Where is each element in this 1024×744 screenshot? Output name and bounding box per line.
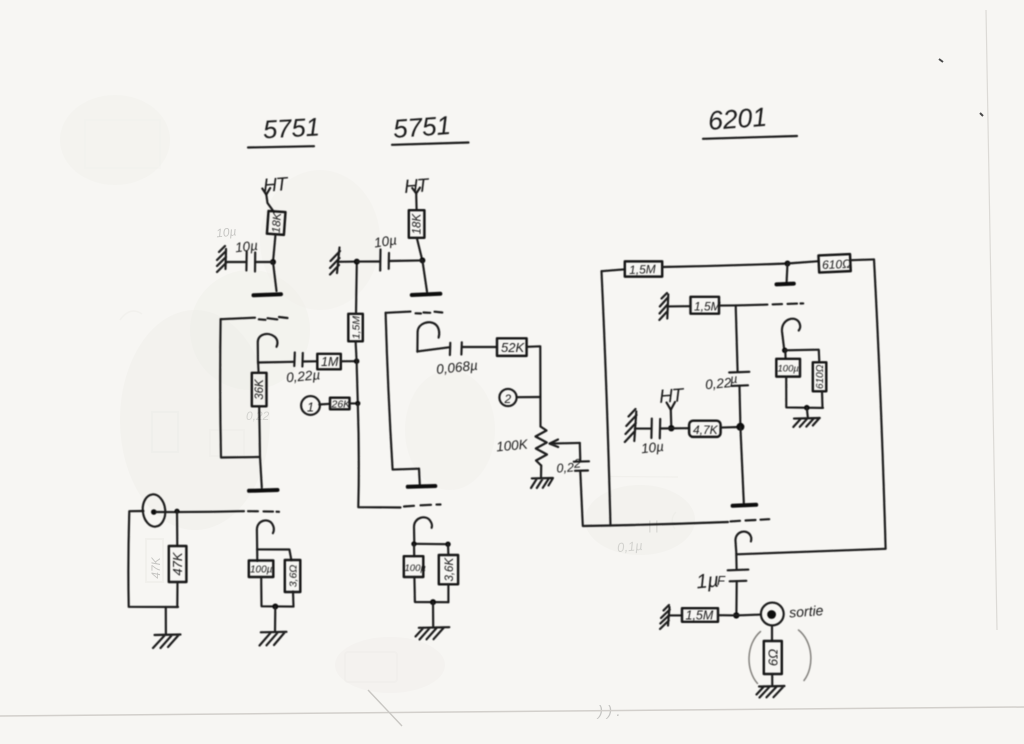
svg-text:) ) .: ) ) .: [596, 703, 621, 720]
wire node down to plate: [273, 262, 277, 291]
wire cathode node to 0,068u: [417, 347, 449, 351]
HT label (first stage): [262, 174, 289, 197]
ground (wall style) at V3a grid: [659, 293, 668, 320]
resistor 1,5M (V3a grid): [691, 297, 721, 314]
triode V2a plate bar: [412, 294, 441, 295]
wire into 100u: [413, 544, 415, 556]
potentiometer wiper arrow: [550, 440, 580, 448]
ground (output): [757, 686, 785, 698]
wire cathode stem down to 1uF: [735, 554, 737, 569]
triode V1a grid wire (solid part from box): [221, 318, 255, 320]
tube label 5751 (first): [262, 113, 320, 144]
capacitor 1uF plates: [728, 570, 749, 582]
resistor 610ohm (V3a cathode, vertical): [813, 362, 827, 391]
capacitor 0,068u plates: [450, 342, 462, 355]
big box right vertical: [874, 259, 886, 548]
wire 1,5M bottom to node: [356, 341, 357, 361]
node: V2 plate / 10u junction: [419, 257, 425, 263]
wire 36K down to box bottom / V1b plate: [259, 406, 262, 487]
capacitor 100u (V3a cathode): [776, 359, 800, 377]
svg-text:F: F: [717, 573, 726, 588]
wire 1M to center node: [341, 360, 357, 362]
ground (wall style) at 10u 6201: [625, 409, 637, 442]
svg-text:18K: 18K: [412, 213, 424, 235]
wire node down to 26K node: [357, 361, 358, 403]
svg-text:100K: 100K: [496, 437, 530, 455]
label 10u (6201): [640, 439, 664, 456]
wire circle2 to pot line: [517, 396, 541, 398]
wire node down to 47K: [176, 511, 178, 546]
cathode node wire to 0.22u: [258, 361, 294, 364]
top rail left segment: [602, 269, 626, 271]
svg-text:10µ: 10µ: [234, 238, 258, 255]
ground (V2b cathode): [416, 627, 450, 639]
wire V2b cathode top rail: [414, 543, 449, 546]
svg-text:HT: HT: [658, 385, 685, 408]
wire circle1 to 26K: [319, 403, 330, 406]
svg-text:4,7K: 4,7K: [693, 423, 719, 437]
resistor 36K (vertical): [252, 373, 267, 407]
big box left vertical: [602, 271, 611, 525]
triode V3b plate bar: [733, 505, 757, 506]
wire 1,5M to output node: [718, 614, 736, 616]
node: 4,7K / 0,22u junction (fat): [736, 423, 744, 431]
resistor 6ohm (vertical): [764, 641, 782, 674]
triode V3a cathode hook: [782, 319, 800, 351]
ground (V1b cathode): [260, 632, 287, 646]
input connector (jack): [141, 493, 167, 528]
HT arrow (first stage): [262, 188, 270, 195]
wire HT to R 18K (second): [415, 193, 418, 210]
wire grid node down to 0,22u: [736, 305, 738, 371]
svg-text:36K: 36K: [254, 378, 266, 400]
ground (V3a cathode): [793, 418, 820, 427]
output jack (sortie): [761, 603, 784, 626]
triode V2a grid wire solid: [386, 312, 411, 313]
svg-text:100µ: 100µ: [250, 565, 273, 576]
wire 1,5M top up to V2 input node: [355, 262, 358, 314]
capacitor 10u (6201): [651, 419, 660, 439]
node: output node: [733, 612, 739, 618]
ground (wall style) at 10u first stage: [217, 246, 226, 272]
ground (potentiometer): [531, 478, 553, 488]
svg-text:5751: 5751: [262, 113, 320, 144]
grid-return box left side (V2a): [386, 313, 419, 470]
wire pot bottom to ground: [540, 466, 542, 478]
wire node to ground: [432, 602, 434, 627]
resistor 610ohm (top rail): [818, 254, 851, 272]
HT arrow (second stage): [412, 188, 420, 194]
wire HT to rail: [670, 410, 673, 428]
wire 1uF down to output node: [735, 582, 737, 616]
terminal circle 1: [301, 396, 320, 415]
wire R18K to node: [417, 238, 423, 260]
wire node to 10u: [357, 260, 380, 262]
wire cathode to 100u and 3,6 top rail: [257, 549, 291, 560]
svg-text:10µ: 10µ: [373, 232, 398, 250]
label 0,068u: [435, 358, 478, 377]
top rail right segment to corner: [850, 258, 874, 261]
V1b cathode hook: [257, 520, 274, 561]
wire 47K to bottom rail: [176, 582, 178, 607]
node: V2b cathode ground node: [430, 599, 436, 605]
V1b grid dashes: [248, 510, 279, 513]
wire ground to node: [338, 261, 357, 263]
wire plate stem (V3a): [786, 264, 789, 283]
wire 0,22u to 1M: [303, 360, 317, 362]
wire 4,7K to junction: [721, 426, 741, 429]
wire cathode to right box line: [736, 549, 885, 555]
V2b grid cathode: hook: [414, 517, 432, 544]
svg-text:52K: 52K: [501, 340, 525, 355]
label 0,22u: [286, 367, 321, 385]
resistor 18K (first stage plate): [267, 211, 286, 235]
V3b grid dashes: [731, 519, 770, 521]
label sortie: [789, 602, 824, 620]
wire V2b plate vertical (from box bottom): [418, 469, 421, 485]
node: V2b cathode right: [445, 542, 450, 547]
triode V3b cathode hook: [735, 532, 751, 555]
node: V2b cathode left: [411, 541, 416, 546]
label 0,22 (pot coupling): [556, 456, 581, 475]
terminal circle 2: [499, 389, 516, 406]
wire node to ground: [807, 408, 808, 418]
wire 610 stems: [819, 350, 823, 408]
wire 1,5M to grid node: [719, 304, 736, 306]
svg-text:2: 2: [572, 456, 581, 471]
node: 26K junction: [355, 401, 360, 406]
svg-text:0,22: 0,22: [705, 375, 733, 392]
wire jack down to 6ohm: [771, 625, 773, 641]
wire 10u to node: [255, 261, 273, 263]
wire arrow to 0,22 cap: [579, 443, 582, 461]
wire 52K to corner, down to pot: [527, 346, 541, 426]
wire ground to 10u (6201): [635, 428, 651, 430]
capacitor 0,22u plates (6201): [729, 372, 749, 386]
wire junction down to V3b plate: [740, 427, 743, 503]
node: V3a cathode: [782, 348, 788, 354]
svg-text:1,5M: 1,5M: [694, 300, 721, 314]
resistor 1,5M (top rail feedback): [625, 261, 662, 277]
wire node to ground: [274, 607, 276, 632]
wire output node to jack: [736, 614, 761, 617]
tube label 5751 (second): [392, 110, 452, 144]
HT arrow (6201): [667, 402, 676, 410]
label 10u: [234, 238, 258, 255]
svg-text:610Ω: 610Ω: [815, 364, 826, 389]
wire 0,22u down to HT junction: [738, 386, 741, 426]
ground (input network): [153, 635, 181, 649]
svg-text:1,5M: 1,5M: [629, 262, 656, 277]
capacitor 0,22u plates: [294, 353, 303, 367]
svg-text:100µ: 100µ: [778, 364, 800, 375]
svg-text:1: 1: [307, 401, 314, 415]
label 100K: [496, 437, 530, 455]
triode V2a cathode hook: [417, 322, 439, 352]
wire 3,6K stems: [447, 544, 450, 602]
wire ground to 10u: [226, 261, 247, 263]
ground (wall style) second stage 10u: [330, 248, 340, 275]
svg-text:µ: µ: [729, 372, 737, 387]
wire 26K to center line node: [350, 402, 358, 404]
HT label (second stage): [403, 175, 430, 198]
triode V1a grid dashes: [259, 317, 288, 320]
wire 100u to bottom rail: [786, 377, 823, 408]
svg-text:0,2: 0,2: [556, 460, 574, 475]
svg-text:0,22µ: 0,22µ: [286, 367, 321, 385]
capacitor 10u (first stage): [246, 252, 255, 272]
capacitor 100u (V1b cathode): [249, 561, 273, 578]
wire HT to R 18K: [266, 195, 274, 212]
underline of 6201 label: [703, 136, 797, 139]
wires caps to bottom node: [261, 577, 293, 607]
svg-text:6201: 6201: [707, 102, 768, 136]
label 0,22u (6201): [705, 372, 738, 392]
wire bottom rail to ground (input): [165, 607, 167, 634]
svg-text:10µ: 10µ: [215, 224, 237, 240]
wire grid node to dashes: [736, 304, 768, 307]
svg-text:47K: 47K: [149, 556, 163, 578]
svg-text:10µ: 10µ: [640, 439, 664, 456]
label 1uF: [695, 569, 726, 593]
wire jack left + down: [128, 511, 178, 607]
tube label 6201: [707, 102, 768, 136]
svg-text:610Ω: 610Ω: [822, 257, 852, 272]
resistor 52K box: [497, 338, 527, 356]
potentiometer 100K zigzag: [536, 427, 548, 466]
wire ground to 1,5M (output): [669, 614, 682, 616]
resistor 1M box: [317, 354, 341, 370]
svg-text:1,5M: 1,5M: [350, 316, 362, 340]
triode V1b plate bar: [249, 488, 278, 493]
node: V1b cathode ground node: [272, 604, 278, 610]
resistor 4,7K box: [689, 421, 721, 437]
triode V1a plate bar: [254, 294, 282, 295]
wire cathode rail right: [785, 349, 819, 352]
V1b grid dashes: [404, 505, 441, 507]
triode V1a cathode hook: [258, 334, 278, 363]
svg-text:47K: 47K: [170, 551, 185, 575]
wire R18K to plate node: [273, 235, 276, 263]
wire ground to 1,5M grid resistor: [668, 305, 691, 307]
capacitor 100u (V2b cathode): [404, 556, 427, 577]
underline of second 5751 label: [392, 143, 469, 145]
node: 47K tee: [174, 509, 179, 514]
grid-return box left side (V1a): [220, 319, 259, 457]
center line down to V1b grid: [358, 403, 401, 507]
node: 1M / 1.5M junction: [354, 358, 360, 364]
HT label (6201): [658, 385, 685, 408]
resistor 18K (second stage plate): [409, 210, 425, 238]
wire 0,22 down to V3 grid rail: [580, 472, 728, 527]
svg-text:sortie: sortie: [789, 602, 824, 620]
svg-text:5751: 5751: [392, 110, 452, 144]
node: HT junction (6201): [668, 425, 674, 431]
resistor 47K (vertical): [169, 546, 187, 582]
resistor 26K box: [330, 398, 351, 411]
wire node down to plate bar: [422, 260, 427, 291]
svg-text:2: 2: [504, 392, 512, 406]
wire 10u to plate node: [389, 259, 423, 262]
resistor 1,5M (vertical, between stages): [348, 314, 363, 342]
svg-text:3,6K: 3,6K: [444, 557, 456, 582]
top rail middle segment: [662, 264, 787, 268]
underline of first 5751 label: [248, 146, 314, 147]
V3a grid dashes: [773, 303, 804, 304]
wire into 100u (V3a): [784, 350, 786, 359]
node: top rail plate junction: [785, 261, 791, 267]
wire 0,068u to 52K: [462, 346, 497, 348]
right parenthesis (pencil): [799, 630, 811, 681]
wire jack to V1b grid (solid): [156, 510, 244, 513]
capacitor 10u (second stage): [380, 250, 389, 271]
node: 10u / plate junction: [270, 259, 276, 265]
svg-text:18K: 18K: [271, 211, 284, 234]
svg-text:1M: 1M: [321, 355, 339, 369]
triode V2b plate bar: [408, 484, 436, 489]
wire 100u to bottom rail: [414, 577, 448, 602]
svg-text:6Ω: 6Ω: [765, 649, 780, 666]
svg-text:26K: 26K: [331, 398, 352, 410]
wire 6ohm to ground: [771, 674, 773, 686]
left parenthesis (pencil): [749, 632, 760, 684]
svg-text:100µ: 100µ: [405, 563, 427, 574]
label 10u (second): [373, 232, 398, 250]
ground (wall style) at output 1,5M: [660, 605, 670, 629]
resistor 3,6K (V2b cathode, vertical): [439, 555, 458, 584]
resistor 1,5M (output): [682, 608, 718, 622]
wire cathode node to 36K: [257, 363, 260, 373]
svg-text:1,5M: 1,5M: [686, 609, 714, 623]
svg-text:3,6Ω: 3,6Ω: [288, 565, 300, 588]
resistor 3,6 (V1b cathode, vertical): [285, 560, 301, 592]
triode V3a plate bar: [777, 282, 794, 287]
top rail to 610ohm: [788, 261, 819, 263]
wire 10u to HT node to 4,7K: [660, 427, 689, 429]
triode V2a grid dashes: [416, 312, 443, 314]
capacitor 0,22 (horizontal plates): [574, 461, 589, 471]
node: V3a cathode ground node: [804, 405, 810, 411]
node: 1,5M top node: [354, 259, 360, 265]
